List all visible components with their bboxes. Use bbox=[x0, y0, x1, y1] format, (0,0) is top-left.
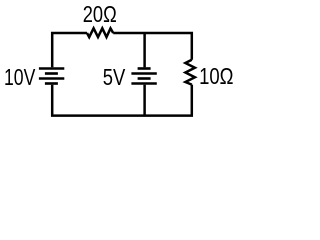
battery V1 10V: second short plate bbox=[45, 72, 58, 75]
battery V1 10V: top long plate (positive) bbox=[39, 67, 64, 70]
wire middle branch from node A down to battery V2 top plate bbox=[143, 33, 146, 67]
battery V1 10V: bottom short plate (negative) bbox=[45, 82, 58, 85]
wire from battery V1 positive terminal up and right to resistor R1 (top-left corner) bbox=[52, 33, 87, 67]
battery V2 5V: third short plate bbox=[138, 77, 151, 80]
battery V2 5V: bottom long plate (positive) bbox=[131, 82, 156, 85]
svg-text:5V: 5V bbox=[103, 64, 126, 90]
wire from resistor R2 down, bottom return wire left, up to battery V1 negative terminal bbox=[52, 85, 192, 116]
svg-text:10V: 10V bbox=[4, 64, 36, 90]
battery V2 5V: top short plate (negative) bbox=[138, 67, 151, 70]
battery V1 10V: third long plate bbox=[39, 77, 64, 80]
resistor R1 20ohm zigzag bbox=[87, 28, 113, 37]
wire from resistor R1 right across node A (top junction) to top-right corner, down to resistor R2 bbox=[113, 33, 192, 60]
svg-text:20Ω: 20Ω bbox=[83, 1, 117, 27]
battery V2 5V: second long plate bbox=[131, 72, 156, 75]
svg-text:10Ω: 10Ω bbox=[199, 63, 233, 89]
resistor R2 10ohm vertical zigzag bbox=[185, 60, 195, 85]
wire middle branch from battery V2 bottom plate down to bottom node bbox=[143, 85, 146, 116]
